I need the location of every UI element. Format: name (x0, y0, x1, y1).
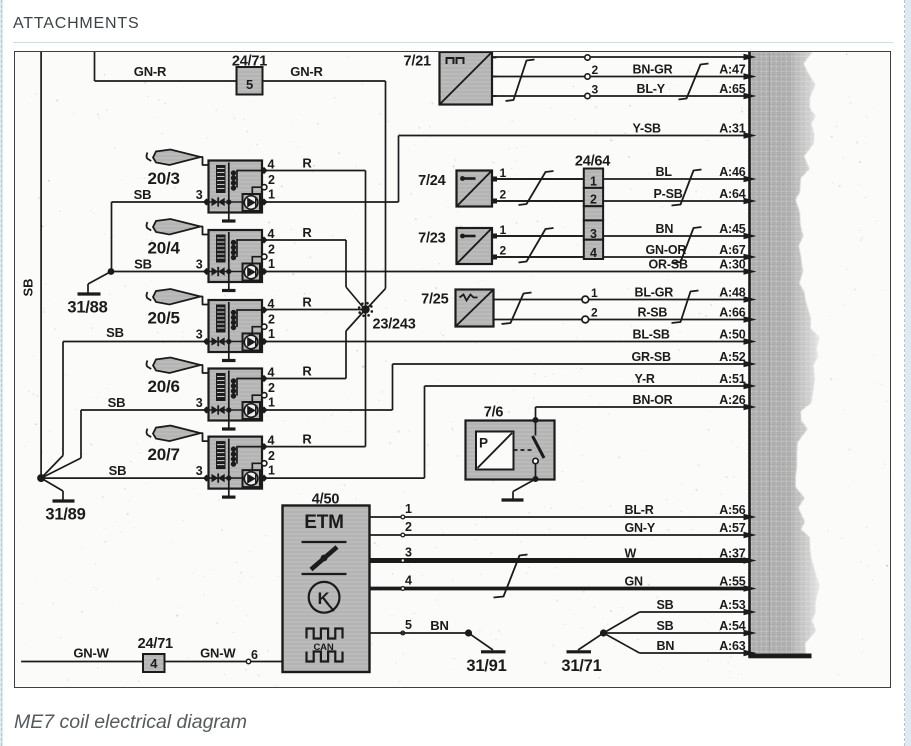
wire coil 20/7 pin1 to Y-R (266, 386, 425, 478)
connector 24/71 pin 5 (232, 54, 267, 95)
svg-text:3: 3 (592, 83, 599, 97)
twisted-wire slash 1 (506, 60, 535, 102)
wire R-SB to connector (494, 305, 757, 323)
ground of 7/6 (502, 479, 536, 500)
wire BL-Y to connector (492, 82, 757, 100)
wire R coil 20/7 pin4 (266, 310, 366, 447)
svg-text:4: 4 (405, 574, 412, 588)
svg-text:20/7: 20/7 (148, 445, 180, 464)
svg-text:R-SB: R-SB (638, 305, 668, 319)
component 7/21 control unit (404, 52, 497, 105)
svg-text:4: 4 (590, 246, 597, 260)
ignition coil 20/3 (147, 150, 275, 222)
svg-text:A:56: A:56 (719, 503, 746, 517)
wire R coil 20/6 pin4 (266, 311, 365, 379)
svg-text:7/24: 7/24 (418, 173, 446, 189)
svg-text:2: 2 (268, 173, 275, 187)
ignition coil 20/7 (147, 426, 275, 498)
svg-text:31/88: 31/88 (67, 299, 107, 317)
wire SB to connector (604, 619, 757, 637)
svg-text:GN-W: GN-W (73, 646, 109, 661)
svg-text:A:52: A:52 (719, 350, 746, 364)
svg-text:A:67: A:67 (719, 243, 746, 257)
wire SB to coil 20/7 (41, 463, 204, 478)
svg-text:2: 2 (268, 313, 275, 327)
connector pins 1-3 of 7/21 (585, 55, 599, 99)
wire GN-R from top left to splice (95, 52, 386, 309)
twisted-wire slash 9 (494, 555, 528, 598)
svg-text:4/50: 4/50 (312, 492, 340, 508)
wire SB to connector (640, 598, 757, 616)
wire SB to coil 20/6 (41, 395, 204, 478)
svg-text:BL-R: BL-R (625, 503, 654, 517)
splice 23/243 (358, 302, 416, 333)
svg-text:3: 3 (590, 227, 597, 241)
svg-text:BN-GR: BN-GR (633, 62, 673, 76)
wire BN to connector (640, 639, 757, 657)
svg-text:A:64: A:64 (719, 187, 746, 201)
svg-text:ETM: ETM (304, 512, 344, 533)
wire GN-Y to connector (370, 521, 757, 539)
svg-text:1: 1 (268, 464, 275, 478)
svg-text:1: 1 (500, 166, 507, 180)
svg-text:4: 4 (268, 227, 275, 241)
svg-text:7/6: 7/6 (484, 405, 504, 421)
wire top to connector (492, 54, 757, 61)
twisted-wire slash 3 (519, 171, 554, 205)
svg-text:24/64: 24/64 (575, 154, 610, 170)
svg-text:GR-SB: GR-SB (632, 350, 671, 364)
svg-text:SB: SB (109, 463, 127, 478)
svg-text:4: 4 (268, 366, 275, 380)
svg-text:BL: BL (656, 165, 673, 179)
svg-text:A:46: A:46 (719, 165, 746, 179)
svg-text:2: 2 (268, 243, 275, 257)
ground 31/88 (67, 268, 114, 316)
svg-text:A:51: A:51 (719, 372, 746, 386)
component 7/23 sensor (418, 223, 583, 264)
svg-text:31/91: 31/91 (466, 657, 506, 675)
wire OR-SB to connector (266, 257, 757, 275)
svg-text:A:26: A:26 (719, 393, 746, 407)
twisted-wire slash 2 (679, 64, 709, 100)
connector band ECM (0, 0, 1, 1)
svg-text:4: 4 (268, 158, 275, 172)
svg-text:A:54: A:54 (719, 619, 746, 633)
svg-text:A:31: A:31 (719, 121, 746, 135)
svg-text:GN-W: GN-W (200, 646, 236, 661)
svg-text:3: 3 (196, 464, 203, 478)
svg-text:3: 3 (196, 328, 203, 342)
svg-text:A:63: A:63 (719, 639, 746, 653)
svg-text:2: 2 (268, 381, 275, 395)
wire BN-OR to connector (536, 393, 757, 411)
svg-text:7/23: 7/23 (418, 231, 446, 247)
svg-text:R: R (302, 295, 312, 310)
svg-text:Y-R: Y-R (635, 372, 655, 386)
wire BL to connector (497, 165, 757, 183)
svg-text:1: 1 (590, 175, 597, 189)
svg-text:4: 4 (268, 434, 275, 448)
svg-text:6: 6 (251, 648, 258, 662)
wire GR-SB to connector (393, 350, 757, 368)
svg-text:3: 3 (405, 546, 412, 560)
svg-text:7/25: 7/25 (421, 292, 449, 308)
svg-text:GN-Y: GN-Y (625, 521, 656, 535)
svg-text:20/4: 20/4 (148, 239, 181, 258)
ETM pins 1-5 (401, 502, 412, 635)
svg-text:24/71: 24/71 (138, 636, 173, 652)
svg-text:24/71: 24/71 (232, 54, 267, 70)
ETM module 4/50 (283, 492, 370, 673)
svg-text:A:66: A:66 (719, 305, 746, 319)
svg-text:20/6: 20/6 (148, 377, 180, 396)
svg-text:2: 2 (591, 306, 598, 320)
svg-text:Y-SB: Y-SB (633, 121, 662, 135)
svg-text:2: 2 (500, 188, 507, 202)
svg-text:1: 1 (500, 223, 507, 237)
svg-text:3: 3 (196, 258, 203, 272)
svg-text:5: 5 (405, 618, 412, 632)
ignition coil 20/6 (147, 358, 275, 430)
svg-text:2: 2 (268, 449, 275, 463)
svg-text:A:53: A:53 (719, 598, 746, 612)
ground 31/71 with fan to SB/SB/BN (561, 612, 639, 675)
wire coil 20/3 pin1 to Y-SB (266, 136, 399, 203)
svg-text:BL-GR: BL-GR (635, 285, 674, 299)
svg-text:BL-Y: BL-Y (637, 82, 666, 96)
svg-text:GN-R: GN-R (290, 64, 323, 79)
svg-text:SB: SB (106, 325, 124, 340)
svg-text:SB: SB (657, 598, 674, 612)
svg-text:2: 2 (590, 193, 597, 207)
wire BL-SB to connector (266, 327, 757, 345)
wire BN from ETM pin5 (370, 618, 469, 633)
wire BN-GR to connector (492, 62, 757, 80)
svg-text:2: 2 (405, 520, 412, 534)
svg-text:BN: BN (657, 639, 675, 653)
wire coil 20/6 pin1 to GR-SB (266, 364, 393, 410)
ground 31/91 (465, 629, 507, 675)
svg-text:SB: SB (657, 619, 674, 633)
svg-text:GN-OR: GN-OR (646, 243, 687, 257)
svg-text:R: R (302, 364, 312, 379)
svg-text:3: 3 (196, 188, 203, 202)
svg-text:A:47: A:47 (719, 62, 746, 76)
svg-text:5: 5 (246, 77, 253, 92)
svg-text:A:65: A:65 (719, 82, 746, 96)
ignition coil 20/4 (147, 219, 275, 291)
wire P-SB to connector (497, 187, 757, 205)
svg-text:A:48: A:48 (719, 285, 746, 299)
connector 24/71 pin 4 (138, 636, 173, 672)
wire BL-GR to connector (494, 285, 757, 303)
svg-text:1: 1 (268, 396, 275, 410)
wire SB left vertical bus (21, 52, 42, 478)
wire GN to connector (370, 574, 757, 592)
svg-text:SB: SB (108, 395, 126, 410)
svg-text:1: 1 (405, 502, 412, 516)
svg-text:A:37: A:37 (719, 546, 746, 560)
svg-text:4: 4 (150, 656, 158, 671)
svg-text:GN: GN (625, 574, 644, 588)
svg-text:A:50: A:50 (719, 327, 746, 341)
svg-text:SB: SB (21, 278, 36, 296)
svg-text:GN-R: GN-R (134, 64, 167, 79)
svg-text:R: R (302, 225, 312, 240)
svg-text:BN: BN (656, 222, 674, 236)
svg-text:2: 2 (500, 244, 507, 258)
wire SB to coil 20/4 (111, 257, 204, 272)
svg-text:2: 2 (592, 63, 599, 77)
wire Y-SB to connector (399, 121, 757, 139)
component 7/24 sensor (418, 166, 583, 207)
svg-text:SB: SB (134, 257, 152, 272)
wire SB to coil 20/5 (41, 325, 204, 478)
wire R coil 20/4 pin4 (266, 225, 365, 309)
svg-text:20/5: 20/5 (148, 309, 180, 328)
svg-text:R: R (302, 156, 312, 171)
svg-text:31/71: 31/71 (561, 657, 601, 675)
wire Y-R to connector (425, 372, 757, 390)
twisted-wire slash 8 (672, 291, 699, 324)
svg-text:R: R (302, 432, 312, 447)
svg-text:3: 3 (196, 396, 203, 410)
svg-text:BN: BN (430, 618, 448, 633)
svg-text:7/21: 7/21 (404, 54, 432, 70)
ignition coil 20/5 (147, 289, 275, 361)
svg-text:A:30: A:30 (719, 257, 746, 271)
wire GN-W to ETM pin6 (21, 646, 282, 664)
wire BL-R to connector (370, 503, 757, 521)
svg-text:A:55: A:55 (719, 574, 746, 588)
svg-text:A:45: A:45 (719, 222, 746, 236)
connector block 24/64 (575, 154, 610, 261)
svg-text:20/3: 20/3 (148, 169, 180, 188)
svg-text:31/89: 31/89 (45, 506, 85, 524)
twisted-wire slash 4 (672, 170, 702, 206)
wire BN to connector (497, 222, 757, 240)
svg-text:BN-OR: BN-OR (633, 393, 673, 407)
wire GN-OR to connector (497, 243, 757, 260)
component 7/6 pressure switch (466, 405, 555, 483)
svg-text:A:57: A:57 (719, 521, 746, 535)
twisted-wire slash 5 (519, 228, 554, 263)
twisted-wire slash 6 (672, 227, 702, 263)
svg-text:1: 1 (591, 286, 598, 300)
wire R coil 20/3 pin4 (266, 156, 366, 310)
svg-text:W: W (625, 546, 637, 560)
svg-text:1: 1 (268, 188, 275, 202)
wire SB to coil 20/3 (112, 187, 205, 272)
ground node 31/89 (37, 474, 86, 523)
svg-text:SB: SB (134, 187, 152, 202)
svg-text:23/243: 23/243 (373, 317, 416, 333)
svg-text:1: 1 (268, 327, 275, 341)
wire W to connector (370, 546, 757, 564)
svg-text:P-SB: P-SB (654, 187, 683, 201)
svg-text:1: 1 (268, 257, 275, 271)
twisted-wire slash 7 (502, 293, 532, 325)
wire R coil 20/5 pin4 (266, 295, 362, 310)
component 7/25 sensor (421, 286, 598, 327)
svg-text:P: P (479, 436, 488, 451)
svg-text:BL-SB: BL-SB (633, 327, 670, 341)
